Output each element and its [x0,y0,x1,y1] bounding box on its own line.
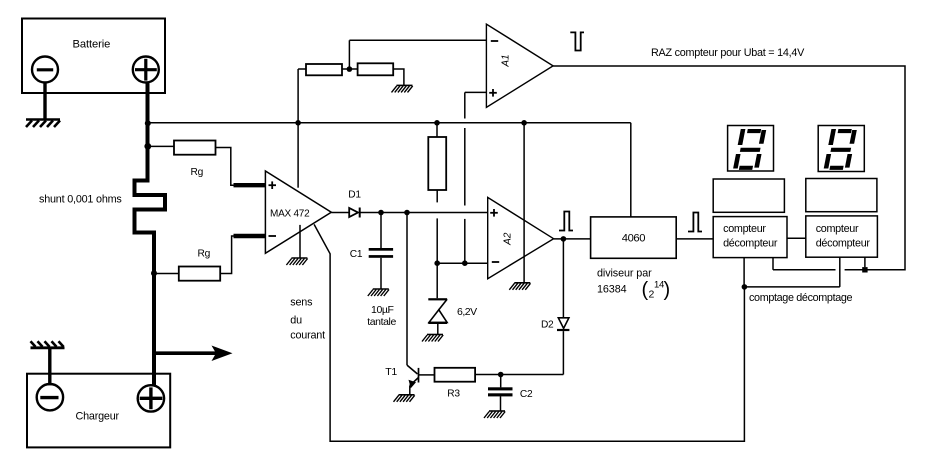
svg-text:du: du [290,315,302,327]
svg-text:14: 14 [654,280,664,291]
svg-text:R3: R3 [447,389,460,400]
svg-text:(: ( [642,279,649,301]
svg-text:A2: A2 [503,232,514,246]
svg-text:4060: 4060 [622,233,645,245]
svg-text:décompteur: décompteur [723,238,778,250]
svg-text:D2: D2 [541,320,554,331]
svg-text:T1: T1 [385,366,397,378]
svg-text:compteur: compteur [816,223,859,235]
svg-text:6,2V: 6,2V [457,306,477,318]
svg-text:A1: A1 [501,54,512,67]
svg-text:10µF: 10µF [371,304,394,316]
svg-text:16384: 16384 [597,284,627,296]
svg-text:Rg: Rg [198,249,211,260]
svg-text:RAZ compteur pour Ubat = 14,4V: RAZ compteur pour Ubat = 14,4V [651,47,805,59]
svg-text:Chargeur: Chargeur [76,411,120,423]
svg-text:D1: D1 [348,190,361,201]
svg-text:courant: courant [290,330,325,342]
svg-text:tantale: tantale [367,316,396,328]
svg-text:C1: C1 [350,249,363,260]
svg-text:): ) [664,279,671,301]
svg-text:sens: sens [290,297,313,309]
svg-text:shunt 0,001 ohms: shunt 0,001 ohms [39,194,122,206]
svg-text:C2: C2 [520,389,533,400]
svg-text:MAX 472: MAX 472 [270,209,310,220]
svg-text:compteur: compteur [723,223,766,235]
svg-text:décompteur: décompteur [816,238,871,250]
svg-text:Batterie: Batterie [73,39,111,51]
svg-text:comptage décomptage: comptage décomptage [749,292,853,304]
svg-text:diviseur par: diviseur par [597,268,652,280]
svg-text:Rg: Rg [191,167,204,178]
